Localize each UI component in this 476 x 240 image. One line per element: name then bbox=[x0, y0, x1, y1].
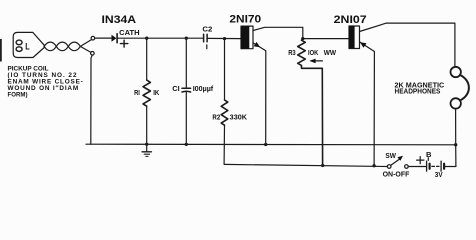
node: R2 top junction bbox=[223, 37, 226, 40]
svg-text:RI: RI bbox=[134, 88, 140, 97]
wire: diode to C2 bbox=[118, 37, 203, 39]
diode D1 1N34A bbox=[112, 34, 118, 43]
transistor Q1 2N170 bbox=[241, 26, 303, 144]
pickup coil L loop body bbox=[13, 32, 44, 57]
svg-text:2NI70: 2NI70 bbox=[229, 14, 261, 26]
svg-text:330K: 330K bbox=[230, 113, 248, 122]
svg-text:CATH: CATH bbox=[119, 28, 139, 37]
wire: battery to right rail bbox=[445, 145, 456, 167]
svg-text:ON-OFF: ON-OFF bbox=[383, 170, 410, 179]
collector lead bbox=[253, 27, 303, 38]
node: C1 top junction bbox=[185, 37, 188, 40]
svg-text:CI: CI bbox=[172, 84, 179, 93]
svg-text:2NI07: 2NI07 bbox=[334, 14, 367, 26]
wire: R3 junction to Q2 base bbox=[303, 38, 349, 40]
capacitor C2 bbox=[204, 34, 208, 49]
collector lead bbox=[360, 23, 455, 67]
svg-text:IN34A: IN34A bbox=[102, 14, 137, 26]
wire: coil bottom terminal down bbox=[91, 55, 92, 144]
svg-text:FORM): FORM) bbox=[8, 92, 28, 99]
wire: C2 to Q1 base bbox=[208, 37, 241, 39]
svg-text:R3: R3 bbox=[288, 48, 296, 57]
battery B bbox=[427, 158, 445, 171]
capacitor C1 bbox=[182, 38, 191, 144]
transistor Q2 2N107 bbox=[349, 23, 455, 166]
headphones earpiece bottom bbox=[451, 98, 461, 108]
terminal top bbox=[91, 36, 95, 40]
svg-text:I00µµf: I00µµf bbox=[193, 84, 214, 93]
node: Q2 emitter junction bbox=[372, 164, 375, 167]
svg-text:SW: SW bbox=[385, 151, 396, 160]
node: R3 wiper junction bbox=[321, 164, 324, 167]
node: battery rail junction bbox=[454, 143, 457, 146]
svg-text:R2: R2 bbox=[212, 113, 220, 122]
wire: top terminal to diode bbox=[95, 37, 112, 39]
battery polarity + bbox=[417, 157, 424, 164]
wire: switch to battery bbox=[408, 166, 426, 168]
wire: positive rail (lower bottom rail) bbox=[224, 164, 387, 166]
svg-text:C2: C2 bbox=[202, 25, 212, 34]
wire: bottom earpiece down to rail bbox=[455, 109, 457, 145]
node: R1 bottom junction bbox=[145, 143, 148, 146]
ground bbox=[142, 144, 151, 156]
switch SW bbox=[387, 156, 408, 169]
svg-text:HEADPHONES: HEADPHONES bbox=[395, 86, 441, 95]
headphones headband arc bbox=[460, 75, 469, 100]
twisted pair leads bbox=[44, 40, 91, 53]
node: C1 bottom junction bbox=[185, 143, 188, 146]
svg-text:B: B bbox=[426, 150, 432, 159]
node: R1 top junction bbox=[145, 37, 148, 40]
svg-text:WW: WW bbox=[324, 48, 336, 57]
node: Q1 emitter junction bbox=[264, 143, 267, 146]
scan edge mark bbox=[0, 39, 2, 62]
svg-text:IK: IK bbox=[153, 88, 160, 97]
svg-text:IOK: IOK bbox=[308, 48, 319, 57]
resistor R2 bbox=[221, 39, 228, 164]
emitter lead with PNP arrow bbox=[360, 42, 375, 166]
resistor R1 bbox=[143, 38, 150, 144]
headphones earpiece top bbox=[451, 67, 461, 77]
potentiometer R3 bbox=[298, 40, 323, 165]
svg-text:3V: 3V bbox=[435, 170, 443, 179]
emitter lead with NPN arrow bbox=[253, 43, 266, 145]
diode polarity + bbox=[120, 40, 127, 47]
wire: negative rail (upper bottom rail) bbox=[86, 143, 456, 146]
svg-text:L: L bbox=[25, 42, 30, 52]
terminal bottom bbox=[91, 52, 95, 56]
node: R3 top junction bbox=[301, 37, 304, 40]
wiper arrow bbox=[311, 60, 322, 62]
